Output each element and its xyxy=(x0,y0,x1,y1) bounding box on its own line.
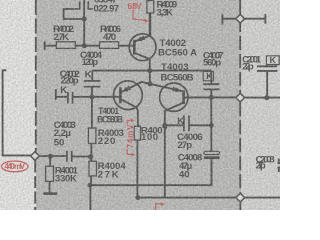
node junction dot xyxy=(82,17,87,22)
node dot xyxy=(264,95,269,100)
K tolerance box (C4007) xyxy=(203,72,213,81)
node dot xyxy=(88,183,93,188)
input wire y=156 from diamond through C4003 xyxy=(39,155,66,157)
wire vertical from top edge to resistor row xyxy=(83,0,85,46)
node dot input row xyxy=(88,154,93,159)
bottom rail B y=197.6 xyxy=(138,197,280,199)
node dot xyxy=(89,94,94,99)
wire column x=211 down to C4008 xyxy=(210,97,212,151)
capacitor C4008 electrolytic xyxy=(204,151,220,185)
resistor R4006 xyxy=(100,42,119,49)
wire column x=164.8 down to bottom rail xyxy=(164,125,166,198)
long rail wire y=70.6 xyxy=(92,70,211,72)
node diamond (top right) xyxy=(236,14,245,23)
wire loop from C4001 left lead xyxy=(64,9,83,19)
paper background left margin xyxy=(0,0,280,210)
annotation 6.8V with arrow xyxy=(133,10,149,23)
node diamond (mid right) xyxy=(236,93,245,102)
annotation 74mV bracket top xyxy=(127,119,134,124)
resistor R4007 xyxy=(134,126,140,197)
node dot T4002 collector on rail xyxy=(147,68,152,73)
margin bracket corner xyxy=(3,70,31,155)
wire tail to emitters junction xyxy=(149,71,151,84)
node dot on bottom rail xyxy=(135,195,140,200)
resistor R4003 xyxy=(88,128,96,144)
right module boundary vertical x=240 xyxy=(239,0,241,210)
wire to T4002 base xyxy=(119,45,135,47)
transistor T4001 xyxy=(94,81,150,127)
node dot xyxy=(209,95,214,100)
left column x=90.8 with R4003 / R4004 xyxy=(91,97,93,128)
transistor T4003 xyxy=(150,83,188,125)
input terminal stub 2 with capacitor C4002 xyxy=(56,89,67,100)
bottom rail A y=185.2 xyxy=(90,159,212,185)
resistor R4004 xyxy=(89,161,97,176)
node diamond (input node, left) xyxy=(31,152,40,161)
main schematic grey background xyxy=(36,0,241,210)
top right rail y=18.7 with terminal stubs xyxy=(222,14,265,25)
annotation oval 440 mV xyxy=(2,161,28,172)
annotation arrow bottom (cut) xyxy=(156,202,165,210)
node diamond (bottom right) xyxy=(236,193,245,202)
base rail wire y=97.4 to right edge xyxy=(184,96,280,98)
capacitor C4004 xyxy=(84,71,101,95)
node dot xyxy=(209,123,214,128)
module boundary dash-dot line (left) xyxy=(34,0,37,210)
annotation 74mV bracket bottom xyxy=(127,149,135,157)
capacitor C2003 (cut at right edge) xyxy=(277,159,280,173)
node dot emitters junction xyxy=(148,81,153,86)
red measurement annotations xyxy=(2,10,165,211)
capacitor C4003 xyxy=(67,151,91,162)
resistor R4009 xyxy=(147,1,154,36)
scan grain overlay xyxy=(0,0,280,210)
resistor R4001 with ground xyxy=(46,156,54,193)
capacitor C4002 plates xyxy=(68,92,90,104)
capacitor C4001 (top, part 03847-022.97) xyxy=(75,1,93,9)
resistor R4002 xyxy=(56,42,75,49)
node dot (R4001 tap) xyxy=(48,154,53,159)
ground symbol xyxy=(44,192,58,195)
wire xyxy=(76,45,100,47)
capacitor C2001 xyxy=(257,65,277,98)
capacitor C4007 xyxy=(203,71,219,98)
wire to bottom edge xyxy=(89,176,92,210)
node junction dot xyxy=(82,43,87,48)
transistor T4002 xyxy=(129,13,156,71)
node dot xyxy=(162,123,167,128)
input terminal stub (left, signal in) xyxy=(45,41,57,50)
wire xyxy=(90,144,92,162)
right module lighter background xyxy=(241,0,280,210)
capacitor C4006 with wire xyxy=(165,115,212,131)
K tolerance box (C2001) xyxy=(266,56,279,65)
